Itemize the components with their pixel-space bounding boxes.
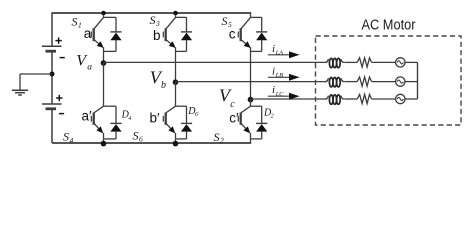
svg-text:c: c [229,27,236,42]
svg-text:b′: b′ [150,110,161,125]
svg-text:b: b [153,28,161,43]
svg-text:AC Motor: AC Motor [362,17,416,33]
svg-text:a′: a′ [82,108,93,123]
svg-text:a: a [84,26,92,41]
svg-text:c′: c′ [229,111,239,126]
